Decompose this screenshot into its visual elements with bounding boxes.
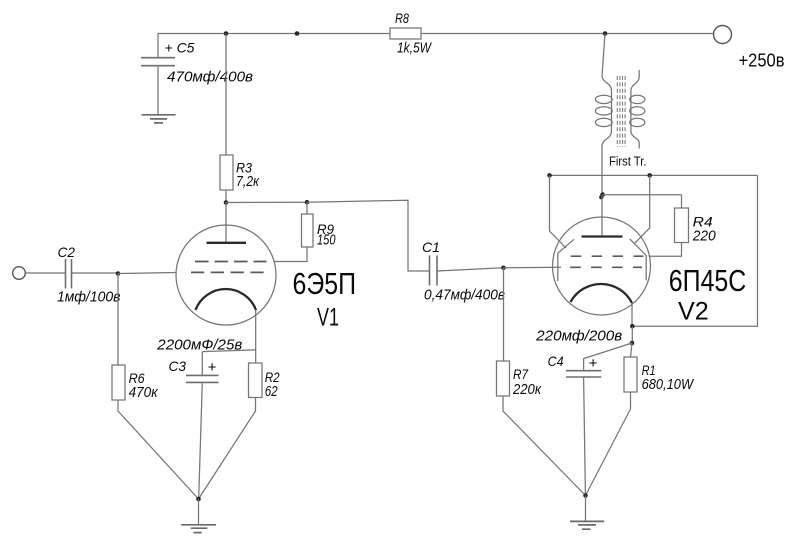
node box right branch xyxy=(647,173,652,178)
V2 control grid (dashed) xyxy=(570,266,642,268)
node ground junction V2 xyxy=(583,493,588,498)
wire beam plate box top xyxy=(550,174,758,176)
capacitor C1 xyxy=(430,256,438,286)
wire to ground symbol xyxy=(198,499,200,525)
capacitor C5 xyxy=(157,34,159,58)
svg-text:1мф/100в: 1мф/100в xyxy=(57,288,121,305)
resistor R8 xyxy=(390,28,421,39)
wire input to C2 xyxy=(25,272,65,274)
V2 cathode arc xyxy=(571,284,633,303)
node rail-transformer junction xyxy=(603,31,608,36)
svg-text:2200мФ/25в: 2200мФ/25в xyxy=(156,337,242,354)
svg-text:680,10W: 680,10W xyxy=(642,377,695,393)
resistor R4 xyxy=(675,208,689,243)
wire R3 feed xyxy=(225,34,227,156)
svg-text:62: 62 xyxy=(265,384,278,400)
wire R9 to V1 screen grid xyxy=(274,247,307,262)
node cathode-box junction xyxy=(630,324,635,329)
V1 control grid (dashed) xyxy=(191,271,264,273)
node V1 anode junction xyxy=(224,200,229,205)
node V2 grid junction xyxy=(501,266,506,271)
svg-text:220к: 220к xyxy=(512,382,542,398)
svg-text:220: 220 xyxy=(692,229,716,245)
V2 screen grid (dashed) xyxy=(571,255,644,257)
wire top supply rail xyxy=(158,33,713,35)
svg-text:R1: R1 xyxy=(642,363,656,378)
resistor R2 xyxy=(249,363,263,398)
ground (V2 stage) xyxy=(570,521,604,529)
wire V2 anode lead xyxy=(601,195,603,237)
svg-text:0,47мф/400в: 0,47мф/400в xyxy=(424,287,505,304)
wire node to R9 xyxy=(226,201,307,203)
wire node to V1 grid xyxy=(118,273,177,274)
svg-text:C2: C2 xyxy=(58,244,76,260)
wire V2 cathode lead xyxy=(631,303,633,326)
wire node to C1 xyxy=(307,200,430,271)
svg-text:V1: V1 xyxy=(317,303,339,331)
svg-text:150: 150 xyxy=(317,233,336,249)
svg-text:C1: C1 xyxy=(422,239,440,255)
tube V1 envelope xyxy=(176,225,276,325)
tube V2 envelope xyxy=(553,217,651,315)
wire anode lead V1 xyxy=(225,203,227,243)
input terminal xyxy=(13,267,26,280)
wire R6 to ground xyxy=(118,400,199,499)
wire left beam plate lead xyxy=(550,175,567,248)
svg-text:R8: R8 xyxy=(395,11,409,26)
wire right beam plate lead xyxy=(635,175,650,243)
svg-text:6Э5П: 6Э5П xyxy=(293,267,357,301)
node V1 grid junction xyxy=(116,271,121,276)
transformer core (dashed) xyxy=(617,76,625,147)
wire transformer to V2 anode xyxy=(601,147,603,196)
svg-text:1k,5W: 1k,5W xyxy=(397,41,432,57)
node R9 top xyxy=(305,200,310,205)
ground (V1 stage) xyxy=(181,525,216,533)
svg-text:+: + xyxy=(208,359,217,376)
ground (C5) xyxy=(142,115,176,123)
wire transformer primary feed xyxy=(602,34,605,77)
wire R3 to node xyxy=(225,190,227,203)
node ground junction V1 xyxy=(196,497,201,502)
terminal +250v xyxy=(714,26,732,44)
resistor R6 xyxy=(117,274,119,366)
svg-text:V2: V2 xyxy=(678,297,709,325)
wire anode to R4 xyxy=(603,195,682,208)
V1 cathode arc xyxy=(196,289,257,310)
transformer First Tr. primary winding xyxy=(602,76,612,131)
node V2 anode junction xyxy=(600,192,605,197)
wire C3 to ground xyxy=(199,382,203,498)
wire C3 branch xyxy=(202,350,255,352)
node box left end xyxy=(547,173,552,178)
wire to ground symbol xyxy=(585,496,587,522)
node rail mid junction xyxy=(295,31,300,36)
wire R2 to ground xyxy=(199,398,256,500)
wire C2 to grid node xyxy=(72,272,119,274)
svg-text:470мф/400в: 470мф/400в xyxy=(167,68,253,85)
transformer secondary winding xyxy=(631,70,639,131)
svg-text:R2: R2 xyxy=(265,370,280,385)
wire R1 to ground xyxy=(586,392,631,496)
svg-text:+: + xyxy=(589,355,598,372)
wire C1 to V2 grid node xyxy=(437,268,504,271)
svg-text:R7: R7 xyxy=(513,367,528,382)
wire box right edge xyxy=(632,175,757,326)
capacitor C4 xyxy=(566,371,601,377)
V2 right beam plate xyxy=(630,239,646,281)
wire C5 to ground xyxy=(157,66,159,115)
wire cathode to R1 node xyxy=(631,326,633,343)
svg-text:+250в: +250в xyxy=(739,51,785,71)
svg-text:220мф/200в: 220мф/200в xyxy=(535,327,622,344)
svg-text:470к: 470к xyxy=(129,385,159,401)
svg-text:+ C5: + C5 xyxy=(165,39,195,55)
V1 screen grid (dashed) xyxy=(195,261,267,263)
resistor R7 xyxy=(503,268,505,361)
V2 left beam plate xyxy=(558,239,574,281)
V1 anode plate xyxy=(207,242,247,244)
svg-text:C4: C4 xyxy=(548,353,564,369)
svg-text:R6: R6 xyxy=(129,371,145,386)
wire C4 to ground xyxy=(584,377,586,494)
resistor R1 xyxy=(631,343,633,357)
resistor R9 xyxy=(306,202,308,214)
capacitor C3 xyxy=(186,375,219,382)
svg-text:C3: C3 xyxy=(169,358,187,374)
node R1-C4 junction xyxy=(630,341,635,346)
wire R4 to V2 screen grid xyxy=(650,243,682,257)
wire node to V2 grid xyxy=(504,266,562,269)
svg-text:R4: R4 xyxy=(693,215,713,230)
svg-text:7,2к: 7,2к xyxy=(236,174,260,190)
wire node to C4 xyxy=(584,343,632,370)
wire V1 cathode lead xyxy=(255,310,257,363)
wire R7 to ground xyxy=(503,396,586,496)
svg-text:6П45С: 6П45С xyxy=(669,264,747,298)
V2 anode plate xyxy=(582,235,623,237)
resistor R3 xyxy=(220,155,233,190)
capacitor C2 xyxy=(66,259,72,289)
svg-text:First Tr.: First Tr. xyxy=(609,154,647,168)
node rail-R3 junction xyxy=(224,31,229,36)
